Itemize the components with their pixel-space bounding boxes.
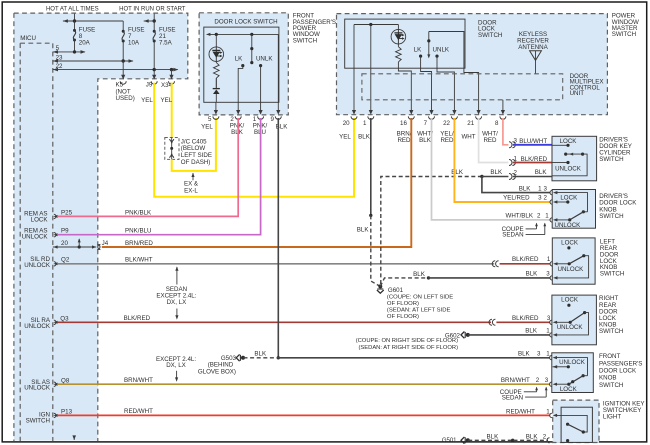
wire BLK dashed from G601 junction to left rear knob feed — [380, 271, 430, 287]
wire master pin 1 internal — [370, 25, 372, 113]
svg-text:SWITCH: SWITCH — [599, 213, 623, 220]
driver's knob pin 3 entry (BLK) — [550, 190, 588, 213]
wire BRN/RED from J4 to master switch pin 16 — [102, 118, 412, 247]
left rear LOCK contact — [567, 246, 570, 249]
master switch pin 16 — [400, 110, 414, 127]
label UNLOCK (right rear) — [557, 324, 584, 331]
svg-text:BLK: BLK — [535, 169, 548, 176]
MICU pin 22 line — [53, 63, 179, 72]
svg-text:BRN/WHT: BRN/WHT — [124, 377, 153, 384]
driver's knob UNLOCK contact — [550, 218, 570, 222]
label POWER WINDOW MASTER SWITCH — [612, 13, 639, 39]
wire WHT/BLK from master pin 7 to driver's knob switch — [432, 118, 551, 220]
svg-text:P9: P9 — [61, 228, 69, 235]
svg-text:YEL/RED: YEL/RED — [503, 194, 530, 201]
svg-text:7.5A: 7.5A — [159, 39, 173, 46]
svg-text:BLK: BLK — [487, 433, 500, 440]
power window master switch box (dashed) — [337, 14, 608, 115]
door lock switch (passenger) inner box — [204, 27, 279, 102]
svg-text:3: 3 — [538, 194, 542, 201]
svg-text:5: 5 — [56, 45, 60, 52]
svg-text:UNLOCK: UNLOCK — [558, 266, 585, 273]
switch LK/UNLK (master) — [414, 32, 479, 113]
wire BLK branch to driver's door lock knob switch — [482, 177, 550, 193]
ignition key switch pin 1 entry (RED/WHT) — [550, 413, 588, 432]
svg-text:1: 1 — [546, 350, 550, 357]
MICU pin P25 (REM AS LOCK) — [24, 209, 72, 223]
svg-text:YEL: YEL — [339, 134, 351, 141]
svg-text:SEDAN: SEDAN — [502, 394, 523, 401]
fuse box area fill — [14, 13, 188, 440]
front passenger knob blade — [569, 376, 583, 385]
wire BLK to driver's door key cylinder switch — [513, 169, 552, 177]
MICU pin P9 (REM AS UNLOCK) — [22, 228, 69, 241]
svg-text:BLK/RED: BLK/RED — [521, 156, 548, 163]
front passenger knob common entry (BLK) — [518, 350, 588, 377]
MICU pin 5 line — [53, 45, 86, 54]
note COUPE/SEDAN (front passenger knob) — [500, 387, 548, 402]
passenger switch pin 9 — [270, 102, 281, 123]
inline connector (to right rear door) — [489, 319, 495, 325]
wire master pin 20 internal — [353, 25, 355, 113]
svg-text:BLK: BLK — [451, 169, 464, 176]
svg-text:RED: RED — [483, 137, 497, 144]
fuse F8 (FUSE 8 20A) — [73, 21, 95, 52]
svg-text:LOCK: LOCK — [560, 195, 578, 202]
label DOOR LOCK SWITCH (master) — [478, 19, 502, 38]
svg-text:1: 1 — [363, 120, 367, 127]
svg-text:LOCK: LOCK — [560, 386, 578, 393]
power window master switch fill — [337, 14, 608, 115]
label YEL/RED (master pin 22) — [440, 131, 454, 145]
wire WHT/RED from master pin 8 — [503, 118, 509, 145]
wire BLK dashed to G601 (from pin 1) — [371, 215, 381, 286]
wire BLK to front passenger knob (continues from G503 junction) — [278, 357, 550, 359]
switch LK/UNLK (passenger) — [235, 34, 274, 102]
passenger switch pin 1 — [253, 102, 264, 123]
svg-text:P25: P25 — [61, 209, 73, 216]
svg-text:BLK: BLK — [413, 271, 426, 278]
wire PNK/BLK from P25 to passenger switch pin 2 — [57, 118, 238, 216]
svg-text:J4: J4 — [102, 240, 109, 247]
driver's knob LOCK contact — [550, 200, 569, 204]
svg-text:1: 1 — [538, 185, 542, 192]
svg-text:SWITCH: SWITCH — [599, 156, 623, 163]
svg-text:2: 2 — [536, 377, 540, 384]
ground G503 (BEHIND GLOVE BOX) — [198, 350, 278, 375]
svg-text:BLK/RED: BLK/RED — [512, 256, 539, 263]
svg-text:7: 7 — [424, 120, 428, 127]
label HOT IN RUN OR START — [119, 6, 186, 12]
label LOCK (front passenger knob) — [560, 386, 578, 393]
note SEDAN EXCEPT 2.4L DX LX (between Q2 and Q3) — [156, 266, 196, 319]
svg-text:SWITCH: SWITCH — [26, 417, 50, 424]
svg-text:1: 1 — [547, 256, 551, 263]
left rear common entry (BLK) — [550, 276, 557, 280]
svg-text:LK: LK — [414, 47, 422, 54]
connector J9 — [146, 70, 157, 89]
right rear LOCK contact — [567, 304, 570, 307]
svg-text:LIGHT: LIGHT — [603, 413, 621, 420]
ground G602 — [356, 332, 470, 351]
svg-text:HOT IN RUN OR START: HOT IN RUN OR START — [119, 6, 186, 12]
label LOCK (key cylinder) — [560, 138, 578, 145]
label WHT/BLK (master pin 7) — [417, 131, 433, 145]
svg-text:KNOB: KNOB — [599, 375, 617, 382]
master switch pin 22 — [443, 110, 457, 127]
svg-text:DOOR LOCK: DOOR LOCK — [599, 368, 637, 375]
svg-text:BLK: BLK — [526, 271, 539, 278]
svg-text:DX, LX: DX, LX — [167, 299, 187, 306]
ground G501 — [442, 437, 470, 444]
svg-text:23: 23 — [56, 54, 63, 61]
svg-text:1: 1 — [514, 155, 518, 162]
front passenger knob UNLOCK contact — [553, 365, 570, 368]
wire BLK dashed from G501 to ignition switch pin 2 — [468, 433, 549, 443]
svg-text:(COUPE: ON LEFT SIDE: (COUPE: ON LEFT SIDE — [387, 294, 453, 300]
svg-text:UNLOCK: UNLOCK — [24, 323, 51, 330]
svg-text:3: 3 — [537, 350, 541, 357]
wire BLK/RED from Q3 to door connector — [57, 315, 491, 322]
svg-text:22: 22 — [443, 120, 450, 127]
svg-text:BLK/WHT: BLK/WHT — [125, 256, 153, 263]
svg-text:OF DASH): OF DASH) — [181, 159, 211, 166]
svg-text:16: 16 — [400, 120, 407, 127]
svg-text:SWITCH: SWITCH — [599, 328, 623, 335]
wire hot-at-all-times rail — [63, 14, 123, 23]
svg-text:LOCK: LOCK — [561, 240, 579, 247]
note EX & EX-L — [184, 173, 199, 195]
wire BLK from master pin 1 (solid part) — [357, 118, 373, 234]
resistor (passenger switch) — [214, 61, 220, 88]
svg-text:RED: RED — [397, 137, 411, 144]
svg-text:RED/WHT: RED/WHT — [124, 408, 153, 415]
svg-text:BLK/RED: BLK/RED — [512, 315, 539, 322]
wire BRN/WHT from Q8 to front passenger door lock knob switch — [57, 377, 550, 384]
LED (master switch illumination) — [391, 25, 406, 45]
label FRONT PASSENGER'S POWER WINDOW SWITCH — [293, 13, 336, 45]
MICU pin Q2 (SIL RD UNLOCK) — [24, 256, 70, 269]
wire BLK/RED to key cylinder UNLOCK — [513, 156, 552, 163]
svg-text:1: 1 — [546, 328, 550, 335]
svg-text:PNK/BLU: PNK/BLU — [125, 228, 151, 235]
wire hot-in-run-or-start rail — [144, 14, 156, 23]
svg-text:3: 3 — [514, 138, 518, 145]
svg-text:2: 2 — [543, 434, 547, 441]
driver's door lock knob switch box — [552, 190, 595, 229]
key cylinder LOCK contact — [552, 144, 570, 147]
svg-text:BLK: BLK — [357, 227, 370, 234]
ignition key switch/key light box (dashed) — [553, 400, 599, 442]
wire BLK/RED to left rear door lock knob switch — [500, 256, 551, 264]
wire BLU/WHT to key cylinder LOCK — [513, 138, 552, 145]
wire YEL from X34 to J/C C405 — [160, 83, 172, 138]
inline connector (driver's area to left rear door) — [492, 261, 498, 267]
svg-text:BLK: BLK — [518, 350, 531, 357]
wire BLK from G602 to right rear knob switch — [468, 328, 550, 335]
label UNLOCK (front passenger knob) — [559, 359, 586, 366]
note EXCEPT 2.4L DX LX (above Q8) — [156, 356, 196, 382]
svg-text:3: 3 — [546, 271, 550, 278]
MICU pin Q3 (SIL RA UNLOCK) — [24, 316, 69, 331]
front passenger power window switch fill — [199, 13, 288, 115]
label BLK (master pin 1) — [358, 134, 371, 141]
left rear UNLOCK entry (BLK/RED) — [550, 262, 571, 266]
svg-text:HOT AT ALL TIMES: HOT AT ALL TIMES — [46, 6, 99, 12]
wire YEL from J/C C405 to passenger switch pin 5 — [172, 118, 216, 171]
connector K5 (NOT USED) — [116, 61, 135, 102]
MICU bottom exit arrow — [72, 435, 76, 440]
label MICU — [20, 35, 36, 42]
right rear common entry (BLK to G602) — [550, 333, 557, 337]
label LOCK (right rear) — [561, 297, 579, 304]
label BRN/RED (master pin 16) — [397, 131, 412, 145]
connector J4 — [97, 240, 108, 250]
svg-text:3: 3 — [544, 185, 548, 192]
resistor (master switch) — [396, 44, 412, 113]
svg-text:UNIT: UNIT — [570, 90, 585, 97]
label YEL (pin 5) — [201, 124, 213, 131]
svg-text:BLK/RED: BLK/RED — [124, 315, 151, 322]
label RIGHT REAR DOOR LOCK KNOB SWITCH — [599, 295, 623, 335]
svg-text:BLK: BLK — [419, 137, 432, 144]
keyless receiver antenna — [517, 31, 549, 74]
front passenger's power window switch box (dashed) — [199, 13, 288, 115]
label PNK/BLU (pin 1) — [253, 123, 268, 137]
label WHT (master pin 21) — [461, 134, 475, 141]
svg-text:3: 3 — [545, 377, 549, 384]
wire BLK dashed branch (pin 2 feed) — [380, 169, 482, 286]
svg-text:PNK/BLK: PNK/BLK — [125, 209, 152, 216]
svg-text:2: 2 — [544, 194, 548, 201]
svg-text:LOCK: LOCK — [561, 297, 579, 304]
svg-text:SWITCH: SWITCH — [612, 31, 636, 38]
svg-text:WHT/BLK: WHT/BLK — [505, 213, 533, 220]
svg-text:UNLOCK: UNLOCK — [559, 359, 586, 366]
svg-text:UNLOCK: UNLOCK — [555, 222, 582, 229]
label DOOR LOCK SWITCH (passenger) — [214, 19, 277, 26]
svg-text:LK: LK — [235, 56, 243, 63]
master switch pin 8 — [495, 110, 506, 127]
label UNLOCK (driver's knob) — [555, 222, 582, 229]
right rear blade — [556, 311, 589, 335]
door lock switch (master) inner box — [345, 19, 465, 68]
inline connector pin 3 (key cylinder) — [509, 138, 518, 148]
wire RED/WHT from P13 to ignition key switch — [57, 408, 550, 415]
key cylinder UNLOCK contact — [552, 161, 570, 164]
svg-text:UNLK: UNLK — [256, 56, 273, 63]
svg-text:PASSENGER'S: PASSENGER'S — [599, 360, 642, 367]
svg-text:G601: G601 — [388, 287, 404, 294]
svg-text:YEL: YEL — [141, 97, 153, 104]
svg-text:UNLOCK: UNLOCK — [555, 165, 582, 172]
label UNLOCK (left rear) — [558, 266, 585, 273]
master switch pin 7 — [424, 110, 435, 127]
label LEFT REAR DOOR LOCK KNOB SWITCH — [600, 239, 624, 278]
svg-text:RED: RED — [440, 137, 454, 144]
svg-text:USED): USED) — [116, 95, 135, 102]
wire BLK solid to left rear door lock knob switch pin 3 — [429, 271, 551, 278]
wire BLK/RED to right rear door lock knob switch — [496, 315, 551, 323]
connector X34 — [161, 70, 175, 89]
svg-text:BLK: BLK — [254, 350, 267, 357]
fuse F7 (FUSE 7 10A) — [122, 21, 145, 61]
junction dot BLK (driver door area) — [480, 175, 483, 178]
svg-text:(SEDAN: AT LEFT SIDE: (SEDAN: AT LEFT SIDE — [387, 308, 451, 314]
label WHT/RED (master pin 8) — [482, 131, 498, 145]
wire WHT from master pin 21 — [479, 118, 509, 163]
svg-text:5: 5 — [208, 116, 212, 123]
svg-text:FRONT: FRONT — [599, 353, 621, 360]
wire passenger switch internal rail — [206, 33, 278, 103]
driver's knob blade — [568, 212, 583, 222]
wire PNK/BLU from P9 to passenger switch pin 1 — [57, 118, 260, 235]
svg-text:SWITCH: SWITCH — [478, 32, 502, 39]
svg-text:BLK: BLK — [526, 433, 539, 440]
label LOCK (left rear) — [561, 240, 579, 247]
wire YEL/RED from master pin 22 to driver's knob switch — [454, 118, 550, 202]
left rear door lock knob switch box — [552, 238, 595, 284]
label BLK (pin 9) — [276, 124, 289, 131]
svg-text:BLU/WHT: BLU/WHT — [519, 138, 547, 145]
svg-text:UNLOCK: UNLOCK — [24, 262, 51, 269]
label DRIVER'S DOOR LOCK KNOB SWITCH — [599, 193, 637, 220]
svg-text:2: 2 — [537, 213, 541, 220]
svg-text:9: 9 — [270, 116, 274, 123]
svg-text:BLK: BLK — [519, 185, 532, 192]
front passenger's door lock knob switch box — [552, 353, 594, 393]
ignition key switch blade — [566, 423, 585, 443]
svg-text:LOCK: LOCK — [31, 216, 49, 223]
label DOOR MULTIPLEX CONTROL UNIT — [570, 73, 604, 97]
label YEL (master pin 20) — [339, 134, 351, 141]
wire BLK from passenger switch pin 9 to G503 — [277, 118, 280, 359]
master switch pin 1 — [363, 110, 374, 127]
svg-text:SWITCH: SWITCH — [600, 271, 624, 278]
svg-text:UNLOCK: UNLOCK — [24, 385, 51, 392]
right rear door lock knob switch box — [552, 295, 597, 345]
svg-text:GLOVE BOX): GLOVE BOX) — [198, 368, 236, 375]
label LOCK (driver's knob) — [560, 195, 578, 202]
svg-text:20: 20 — [343, 120, 350, 127]
svg-text:BLK: BLK — [525, 328, 538, 335]
inline connector pin 2 (key cylinder) — [509, 169, 518, 179]
LED (passenger switch illumination) — [209, 34, 224, 61]
svg-text:MICU: MICU — [20, 35, 36, 42]
svg-text:BLK: BLK — [490, 169, 503, 176]
diode (passenger switch) — [213, 78, 220, 102]
note COUPE/SEDAN (driver's knob) — [502, 223, 547, 239]
svg-text:8: 8 — [495, 120, 499, 127]
svg-text:10A: 10A — [128, 39, 140, 46]
svg-text:(COUPE: ON RIGHT SIDE OF FLOOR: (COUPE: ON RIGHT SIDE OF FLOOR) — [356, 338, 458, 344]
junction connector J/C C405 — [165, 138, 212, 166]
svg-text:YEL: YEL — [160, 97, 172, 104]
key cylinder blade — [552, 153, 587, 176]
label IGNITION KEY SWITCH/KEY LIGHT — [603, 400, 645, 420]
ignition key switch inner box — [561, 407, 592, 442]
svg-text:G501: G501 — [442, 438, 457, 444]
door multiplex control unit box (dashed) — [362, 74, 563, 112]
svg-text:DOOR LOCK SWITCH: DOOR LOCK SWITCH — [214, 19, 277, 26]
svg-text:YEL: YEL — [201, 124, 213, 131]
label PNK/BLK (pin 2) — [230, 123, 245, 137]
passenger switch pin 2 — [230, 102, 241, 123]
svg-text:SWITCH: SWITCH — [599, 382, 623, 389]
svg-text:ANTENNA: ANTENNA — [518, 44, 548, 51]
label UNLOCK (key cylinder) — [555, 165, 582, 172]
passenger switch pin 5 — [208, 102, 219, 123]
svg-text:(SEDAN: AT RIGHT SIDE OF FLOOR: (SEDAN: AT RIGHT SIDE OF FLOOR) — [358, 345, 458, 351]
MICU box (dashed) — [20, 43, 53, 441]
svg-text:2: 2 — [514, 169, 518, 176]
svg-text:22: 22 — [56, 63, 63, 70]
wire BLK solid to door connector (pin 2 of key cylinder) — [482, 169, 509, 177]
fuse F21 (FUSE 21 7.5A) — [153, 21, 176, 70]
MICU pin Q8 (SIL AS UNLOCK) — [24, 377, 70, 391]
svg-text:SWITCH: SWITCH — [293, 37, 317, 44]
MICU pin 20 line to J4 — [53, 238, 97, 248]
driver's door key cylinder switch box — [552, 136, 597, 181]
master switch pin 21 — [467, 110, 481, 127]
svg-text:OF FLOOR): OF FLOOR) — [387, 314, 419, 320]
svg-text:Q2: Q2 — [61, 256, 70, 263]
svg-text:EX-L: EX-L — [184, 187, 198, 194]
label FRONT PASSENGER'S DOOR LOCK KNOB SWITCH — [599, 353, 642, 389]
svg-text:21: 21 — [467, 120, 474, 127]
svg-text:OF FLOOR): OF FLOOR) — [387, 301, 419, 307]
under-dash fuse box (dashed) — [14, 13, 188, 441]
svg-text:SEDAN: SEDAN — [502, 232, 523, 239]
svg-text:BLK: BLK — [358, 134, 371, 141]
inline connector pin 1 (key cylinder) — [509, 155, 518, 165]
svg-text:J9: J9 — [146, 82, 153, 89]
left rear blade — [556, 254, 589, 278]
svg-text:DX, LX: DX, LX — [166, 362, 186, 369]
svg-text:UNLOCK: UNLOCK — [557, 324, 584, 331]
svg-text:1: 1 — [545, 213, 549, 220]
svg-text:WHT: WHT — [461, 134, 475, 141]
svg-text:20A: 20A — [79, 39, 91, 46]
svg-text:BRN/WHT: BRN/WHT — [501, 377, 530, 384]
MICU pin 23 line — [53, 54, 134, 63]
wire master switch internal rail — [354, 23, 398, 26]
svg-text:UNLOCK: UNLOCK — [22, 233, 49, 240]
MICU pin P13 (IGN SWITCH) — [26, 408, 73, 424]
ground G601 — [377, 284, 453, 320]
wire YEL from J9 to master switch pin 20 — [141, 83, 354, 197]
master switch pin 20 — [343, 110, 357, 127]
svg-text:20: 20 — [61, 240, 68, 247]
svg-text:RED/WHT: RED/WHT — [506, 408, 535, 415]
label DRIVER'S DOOR KEY CYLINDER SWITCH — [599, 137, 632, 164]
svg-text:UNLK: UNLK — [433, 47, 450, 54]
front passenger knob LOCK entry (BRN/WHT) — [550, 382, 571, 386]
svg-text:P13: P13 — [61, 408, 73, 415]
wire BLK/WHT from Q2 to door connector — [57, 256, 494, 263]
svg-text:BRN/RED: BRN/RED — [125, 240, 153, 247]
label HOT AT ALL TIMES — [46, 6, 99, 12]
right rear entry (BLK/RED) — [550, 320, 572, 324]
